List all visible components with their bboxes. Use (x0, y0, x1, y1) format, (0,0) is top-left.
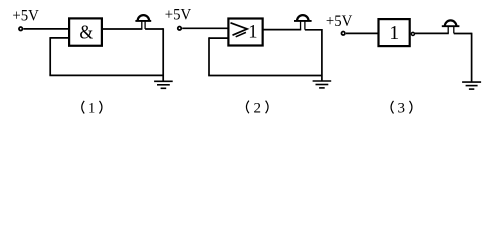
svg-text:1: 1 (248, 23, 257, 43)
wire: vertical down to ground (circuit 1) (162, 28, 164, 81)
wire: input 2 vertical down (circuit 1 loop) (49, 37, 51, 75)
wire: bottom horizontal to ground node (circuit 1 loop) (49, 74, 163, 76)
svg-text:&: & (79, 22, 93, 44)
wire: lamp HL1 to down corner (145, 28, 163, 30)
svg-text:1: 1 (389, 22, 399, 44)
wire: gate U1 input 2 stub (50, 37, 69, 39)
AND gate U1 box (69, 18, 102, 45)
lamp HL1 (indicator dome) (135, 15, 151, 29)
svg-text:3: 3 (398, 101, 406, 117)
svg-text:+5V: +5V (165, 7, 192, 24)
label (3) (391, 101, 412, 117)
wire: T3 to gate U3 input (346, 32, 379, 34)
NOT gate U3 box (379, 19, 410, 46)
wire: gate U2 output to lamp HL2 (263, 29, 302, 31)
ground GND1 (154, 81, 173, 88)
svg-text:+5V: +5V (326, 13, 353, 30)
wire: T1 to gate U1 input 1 (23, 28, 69, 30)
wire: lamp HL2 to down corner (305, 29, 322, 31)
lamp HL3 (indicator dome) (442, 20, 460, 33)
svg-text:1: 1 (88, 101, 96, 117)
OR gate U2 box (228, 19, 262, 46)
label (2) (246, 101, 268, 117)
terminal T2 (+5V input terminal, circuit 2) (178, 27, 182, 31)
terminal T3 (+5V input terminal, circuit 3) (341, 32, 345, 36)
wire: bottom horizontal to ground node (circuit 2 loop) (208, 75, 322, 77)
wire: bubble to lamp HL3 (415, 32, 449, 34)
OR gate U2 label ">=1" (231, 23, 258, 43)
ground GND3 (462, 82, 481, 89)
wire: T2 to gate U2 input 1 (182, 27, 228, 29)
svg-text:+5V: +5V (12, 7, 39, 24)
wire: vertical down to ground (circuit 2) (321, 29, 323, 81)
wire: vertical down to ground (circuit 3) (471, 33, 473, 82)
wire: input 2 vertical down (circuit 2 loop) (208, 37, 210, 75)
label (1) (82, 101, 102, 117)
terminal T1 (+5V input terminal, circuit 1) (19, 27, 23, 31)
ground GND2 (313, 81, 332, 88)
svg-text:2: 2 (253, 101, 261, 117)
wire: gate U1 output to lamp HL1 (102, 28, 142, 30)
wire: gate U2 input 2 stub (209, 37, 228, 39)
lamp HL2 (indicator dome) (294, 15, 312, 30)
wire: lamp HL3 to down corner (454, 33, 472, 35)
inversion bubble at U3 output (411, 32, 414, 35)
